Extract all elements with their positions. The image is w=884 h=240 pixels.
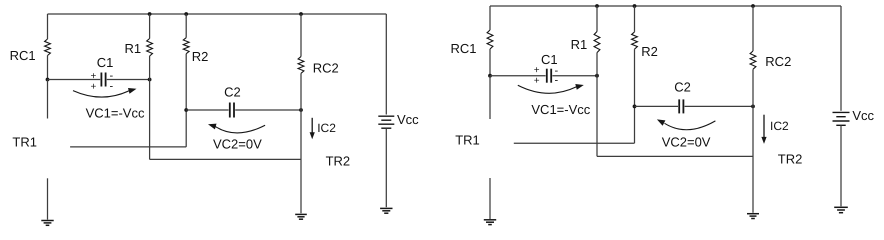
- resistor RC2: [298, 57, 304, 74]
- wire: R2 bottom lead (right): [634, 49, 636, 143]
- wire: C2 left segment (right): [635, 105, 679, 107]
- wire: TR1 collector lead (right): [489, 76, 491, 119]
- wire: rail to battery positive (right): [840, 6, 842, 111]
- battery Vcc (right circuit): [833, 111, 850, 113]
- ground: battery ground (right): [834, 206, 848, 208]
- node: R2 top junction (right): [633, 4, 637, 8]
- wire: R1 bottom lead: [149, 56, 151, 159]
- svg-text:VC1=-Vcc: VC1=-Vcc: [86, 106, 145, 121]
- node: R1 top junction: [148, 12, 152, 16]
- arrow: VC1 polarity arrow: [73, 91, 129, 98]
- svg-text:RC1: RC1: [451, 41, 477, 56]
- wire: C1 right segment (right): [552, 75, 597, 77]
- capacitor C1: [100, 73, 102, 87]
- svg-text:VC2=0V: VC2=0V: [662, 135, 711, 150]
- node: RC2 top junction (right): [751, 4, 755, 8]
- wire: C2 right segment: [235, 109, 301, 111]
- resistor RC1: [45, 39, 51, 56]
- node: C2 right junction (right): [751, 105, 755, 109]
- ground: TR2 emitter ground (right): [747, 213, 759, 215]
- wire: R1 bottom lead (right): [596, 53, 598, 157]
- svg-text:R1: R1: [125, 41, 142, 56]
- wire: TR1 emitter-to-ground stem (right): [489, 178, 491, 219]
- ground: TR2 emitter ground: [295, 213, 307, 215]
- arrow: VC2 polarity arrow (right): [665, 121, 716, 130]
- node: C2 right junction: [299, 108, 303, 112]
- resistor R2 (right): [632, 32, 638, 49]
- arrow: IC2 current arrow: [311, 118, 313, 133]
- svg-text:TR2: TR2: [778, 152, 803, 167]
- wire: rail to battery positive: [385, 14, 387, 115]
- svg-text:+: +: [91, 71, 97, 82]
- resistor R1 (right): [594, 32, 600, 53]
- arrow: VC2 polarity arrow: [215, 125, 265, 133]
- svg-text:VC1=-Vcc: VC1=-Vcc: [531, 102, 590, 117]
- svg-text:IC2: IC2: [770, 119, 789, 133]
- svg-text:Vcc: Vcc: [397, 112, 419, 127]
- node: R1 top junction (right): [595, 4, 599, 8]
- svg-text:-: -: [110, 81, 114, 93]
- wire: R1-to-TR2 horizontal (right): [597, 155, 753, 157]
- resistor RC1 (right): [487, 30, 493, 49]
- svg-text:TR2: TR2: [326, 154, 351, 169]
- capacitor C2: [229, 103, 231, 118]
- wire: C2 left segment: [186, 109, 228, 111]
- wire: R1 top lead (right): [596, 6, 598, 32]
- wire: battery negative to ground (right): [840, 125, 842, 206]
- node: C2 left junction (right): [633, 105, 637, 109]
- resistor R1: [147, 39, 153, 57]
- node: R2 top junction: [184, 12, 188, 16]
- ground: TR1 emitter ground: [41, 220, 53, 222]
- svg-text:RC1: RC1: [10, 48, 36, 63]
- wire: TR1 emitter-to-ground stem: [47, 178, 49, 219]
- ground: battery ground: [380, 207, 392, 209]
- svg-text:VC2=0V: VC2=0V: [213, 136, 262, 151]
- wire: R1-to-TR2 horizontal: [150, 158, 301, 160]
- wire: C2 right segment (right): [685, 105, 753, 107]
- wire: RC1 bottom lead (right): [489, 49, 491, 76]
- wire: battery negative to ground: [385, 128, 387, 207]
- wire: TR1 base line (right): [514, 142, 635, 144]
- wire: C1 left segment: [48, 79, 101, 81]
- arrow: VC1 polarity arrow (right): [518, 85, 577, 93]
- wire: R2 top lead (right): [634, 6, 636, 32]
- wire: TR1 base line: [70, 146, 186, 148]
- node: C1/R1 junction: [148, 78, 152, 82]
- wire: RC2/TR2 vertical to ground: [300, 73, 302, 213]
- node: C1/R1 junction (right): [595, 74, 599, 78]
- svg-text:R1: R1: [571, 37, 588, 52]
- node: C2 left junction: [184, 108, 188, 112]
- wire: RC2 top lead: [300, 14, 302, 57]
- resistor R2: [183, 38, 189, 54]
- svg-text:R2: R2: [192, 49, 209, 64]
- svg-text:TR1: TR1: [12, 135, 37, 150]
- wire: C1 right segment: [107, 79, 150, 81]
- svg-text:+: +: [91, 81, 97, 92]
- svg-text:C2: C2: [224, 85, 241, 100]
- wire: Vcc supply rail (left circuit): [48, 13, 387, 15]
- arrow: IC2 current arrow (right): [763, 115, 765, 138]
- svg-text:+: +: [534, 76, 540, 87]
- svg-text:RC2: RC2: [313, 61, 339, 76]
- battery Vcc (left circuit): [378, 115, 394, 117]
- node: RC2 top junction: [299, 12, 303, 16]
- svg-text:TR1: TR1: [455, 133, 480, 148]
- svg-text:C2: C2: [674, 80, 691, 95]
- wire: R2 top lead: [185, 14, 187, 38]
- svg-text:R2: R2: [641, 44, 658, 59]
- node: RC1/C1/TR1-collector junction: [46, 78, 50, 82]
- wire: R2 bottom lead: [185, 54, 187, 147]
- wire: R1 top lead: [149, 14, 151, 39]
- wire: Vcc supply rail (right circuit): [490, 5, 841, 7]
- wire: RC1 top lead (right): [489, 6, 491, 30]
- svg-text:IC2: IC2: [317, 121, 336, 135]
- svg-text:Vcc: Vcc: [852, 108, 874, 123]
- wire: RC2/TR2 vertical to ground (right): [752, 69, 754, 213]
- wire: RC2 top lead (right): [752, 6, 754, 51]
- wire: C1 left segment (right): [490, 75, 546, 77]
- svg-text:+: +: [534, 65, 540, 76]
- wire: RC1 top lead: [47, 14, 49, 39]
- capacitor C1 (right): [546, 69, 548, 83]
- capacitor C2 (right): [678, 99, 680, 113]
- ground: TR1 emitter ground (right): [484, 219, 496, 221]
- wire: TR1 collector lead: [47, 80, 49, 119]
- resistor RC2 (right): [750, 51, 756, 69]
- svg-text:RC2: RC2: [765, 54, 791, 69]
- wire: RC1 bottom lead: [47, 56, 49, 80]
- node: RC1/C1/TR1-collector junction (right): [488, 74, 492, 78]
- svg-text:C1: C1: [97, 55, 114, 70]
